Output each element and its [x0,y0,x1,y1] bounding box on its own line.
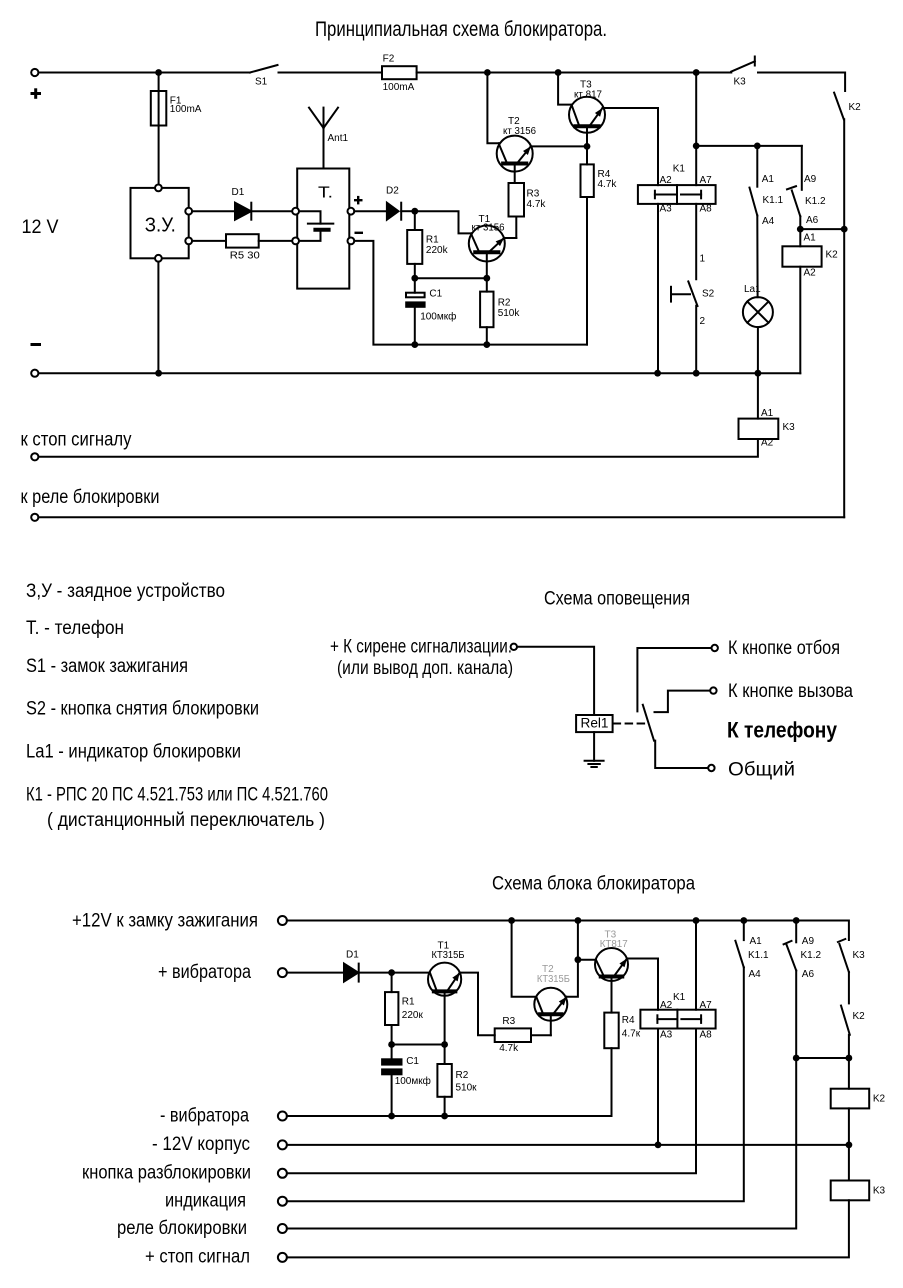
node: K1.2 tap b [793,917,800,924]
contact K1.2 (bottom) [795,921,797,943]
wire: top rail S1 to F2 [279,72,383,74]
svg-text:220к: 220к [402,1010,424,1021]
svg-text:Принципиальная схема блокирато: Принципиальная схема блокиратора. [315,18,607,41]
svg-text:A7: A7 [700,175,713,186]
resistor R4 4.7k (bottom) [604,1013,618,1049]
svg-text:K2: K2 [873,1094,886,1105]
svg-text:K1.2: K1.2 [805,196,826,207]
wire: K2 coil to -12V korpus and K3 coil [848,1108,850,1180]
wire: R2 bottom b [444,1097,446,1116]
terminal: + стоп сигнал [278,1253,287,1262]
wire: node to K2 branch [800,228,844,230]
wire: lamp down to minus rail [757,327,759,373]
node: D1 output [388,969,395,976]
wire: K1 A7 up to rail b [695,921,697,1010]
battery inside phone [299,211,321,223]
svg-text:K2: K2 [853,1011,866,1022]
wire: T3 base to R4 b [611,979,613,1013]
wire: R5 to phone box [259,240,293,242]
svg-text:A6: A6 [802,969,815,980]
svg-text:Ant1: Ant1 [328,133,349,144]
terminal: + вибратора [278,968,287,977]
svg-text:К1 - РПС 20 ПС 4.521.753 или: К1 - РПС 20 ПС 4.521.753 или ПС 4.521.76… [26,785,328,806]
wire: T2 emitter up to T3 node [567,921,578,997]
node: K2 coil bottom join [846,1142,853,1149]
svg-text:R1: R1 [402,997,415,1008]
node: S2 on minus rail [693,370,700,377]
svg-text:A4: A4 [749,969,762,980]
label minus on phone [355,232,364,234]
wire: R1 to node b [391,1025,393,1045]
svg-text:кнопка разблокировки: кнопка разблокировки [82,1163,251,1184]
svg-text:реле блокировки: реле блокировки [117,1218,247,1239]
contact K1.1 (A1-A4) [756,146,758,187]
contact K2 (bottom) [841,1006,850,1035]
wire: K2 branch down to rele blokirovki line [843,229,845,517]
wire: node to T3 collector [578,959,596,961]
wire: K1 A8 down to knopka line [287,1029,696,1174]
node: D2 output [411,208,418,215]
svg-text:индикация: индикация [165,1191,246,1212]
node: T3 collector join [575,956,582,963]
svg-text:Схема оповещения: Схема оповещения [544,589,690,610]
svg-text:(или вывод доп. канала): (или вывод доп. канала) [337,658,513,679]
wire: D1 to node [359,972,392,974]
svg-text:K2: K2 [849,102,862,113]
wire: R2 bottom [486,327,488,344]
label plus on phone [354,199,363,201]
svg-text:A1: A1 [762,174,775,185]
svg-text:A3: A3 [660,204,673,215]
wire: K3 coil down to stop signal line [287,1200,849,1257]
relay K1 box (bottom) [640,1010,715,1029]
block ZU (charger) box [131,188,189,258]
svg-text:K3: K3 [734,77,747,88]
node: C1 bottom b [388,1113,395,1120]
wire: T3 base to node [586,128,588,146]
terminal k rele blokirovki [31,514,38,521]
pin: ZU bottom [155,255,162,262]
wire: R3 bottom to T1 emitter [504,237,516,239]
resistor R3 4.7k (bottom) [495,1028,531,1042]
wire: T2 base to R3 top [514,166,516,184]
svg-text:к реле блокировки: к реле блокировки [21,487,160,508]
dashed link Rel1 to switch [614,723,645,725]
svg-text:100мкф: 100мкф [395,1075,431,1087]
svg-text:4.7k: 4.7k [527,199,547,210]
wire: + vibratora to D1 [287,972,344,974]
resistor R1 220k [414,211,416,230]
svg-text:S2 - кнопка снятия блокировки: S2 - кнопка снятия блокировки [26,699,259,720]
svg-text:A2: A2 [660,175,673,186]
svg-text:K1: K1 [673,164,686,175]
transistor T1 KT315B (bottom) [428,963,461,996]
wire: K1 branch from top rail down to A7 [695,73,697,186]
svg-text:К кнопке вызова: К кнопке вызова [728,681,853,702]
svg-text:K3: K3 [783,422,796,433]
wire: R4 bottom to -vibratora line [611,1048,613,1116]
transistor T3 KT817 (bottom, grey label) [595,948,628,981]
node: T2 emitter / T3 base / R4 [584,143,591,150]
wire: phone plus to D2 [354,210,387,212]
svg-text:F2: F2 [383,54,395,65]
wire: node to T1 collector (stepped) [415,211,472,233]
switch S1 [250,65,278,73]
wire: ZU bottom to minus rail [157,262,159,374]
svg-text:S2: S2 [702,289,715,300]
svg-text:100mA: 100mA [383,82,415,93]
node: R2 on -vibratora [441,1113,448,1120]
ground [585,760,604,762]
wire: T1 emitter to R3 [460,973,495,1036]
wire: T1 base down b [444,993,446,1044]
svg-text:4.7k: 4.7k [499,1043,519,1054]
wire: K1 A3 down to -12V korpus [657,1029,659,1145]
svg-text:A9: A9 [804,174,817,185]
resistor R2 510k (bottom) [444,1045,446,1065]
wire: T3 emitter to K1 A2 column b [627,959,658,1010]
diode D2 [387,203,399,220]
terminal plus (12V+) [31,69,38,76]
svg-text:C1: C1 [406,1056,419,1067]
svg-text:D2: D2 [386,185,399,196]
svg-text:D1: D1 [346,950,359,961]
wire: K2 contact to coil [848,1035,850,1089]
svg-text:+ К сирене сигнализации.: + К сирене сигнализации. [330,637,512,658]
svg-text:La1: La1 [744,284,761,295]
terminal k stop signalu [31,453,38,460]
wire: ZU lower to R5 [192,240,226,242]
svg-text:К телефону: К телефону [727,718,838,743]
svg-text:A1: A1 [761,408,774,419]
wire: K1.2 down through node to rele line [287,971,796,1229]
node: T1 base/R2 b [441,1041,448,1048]
transistor T2 KT315B (bottom, grey label) [534,988,567,1021]
svg-text:Схема блока блокиратора: Схема блока блокиратора [492,874,695,895]
contact K1.1 (bottom) [743,921,745,941]
wire: -12V korpus line [287,1144,849,1146]
relay coil K2 [799,229,801,246]
svg-text:( дистанционный переключатель: ( дистанционный переключатель ) [47,810,325,831]
wire: top rail F2 to K3 contact [417,72,732,74]
svg-text:100mA: 100mA [170,104,202,115]
plus sign label [31,92,42,95]
node: T3 collector tap [555,69,562,76]
fuse F2 100mA [382,66,417,79]
wire: vyzova contact [655,691,711,713]
fuse F1 100mA [158,73,160,188]
node: K1 branch tap [693,69,700,76]
terminal K knopke otboya [712,645,718,651]
minus sign label [31,343,42,346]
node: K2 coil top join [797,226,804,233]
wire: branch to A1 and A9 contacts [696,145,802,147]
terminal Obshchiy [708,765,714,771]
wire: D2 to node [401,210,415,212]
terminal: - 12V корпус [278,1140,287,1149]
svg-text:510k: 510k [498,308,521,319]
svg-text:C1: C1 [429,289,442,300]
capacitor C1 100mkf [414,278,416,293]
wire: K1 A3 down to minus rail [657,204,659,373]
terminal: кнопка разблокировки [278,1169,287,1178]
pin: phone left lower [292,238,299,245]
wire: T3 collector to top rail [558,73,571,105]
terminal: +12V к замку зажигания [278,916,287,925]
svg-text:2: 2 [700,316,706,327]
wire: K1.2 down to K2 coil node [799,216,801,229]
node: K2 coil column join [846,1055,853,1062]
node: T2 collector tap [484,69,491,76]
block T (phone) box [297,169,349,289]
node: R2 bottom [483,341,490,348]
svg-text:12 V: 12 V [22,217,59,238]
terminal: индикация [278,1197,287,1206]
wire: K3 coil to stop-signal terminal [38,439,758,457]
svg-text:K1.2: K1.2 [801,950,822,961]
lamp La1 [743,297,773,327]
wire: top rail from + terminal to S1 [39,72,250,74]
wire: T2 collector to rail b [512,921,537,997]
svg-text:к стоп сигналу: к стоп сигналу [21,430,132,451]
pin: phone left upper [292,208,299,215]
node: A3 on -12V korpus [655,1142,662,1149]
svg-text:R4: R4 [622,1015,635,1026]
pin: phone right plus [348,208,355,215]
wire: minus rail [39,372,801,374]
svg-text:A8: A8 [700,1030,713,1041]
relay coil K2 (bottom) [831,1089,870,1109]
node: K1.1 tap b [740,917,747,924]
pin: phone right minus [348,238,355,245]
node: T1 base join [483,275,490,282]
svg-text:S1 - замок зажигания: S1 - замок зажигания [26,656,188,677]
wire: blade to obshchiy terminal [655,741,708,768]
transistor T2 kt3156 [497,136,533,172]
svg-text:З,У - заядное устройство: З,У - заядное устройство [26,581,225,602]
svg-text:K3: K3 [853,950,866,961]
svg-text:кт 3156: кт 3156 [472,223,505,234]
relay coil K3 (bottom) [831,1181,870,1201]
wire: R4 bottom to local ground line [586,197,588,345]
resistor R2 510k [480,292,493,328]
svg-text:+ вибратора: + вибратора [158,962,251,983]
wire: +12V rail (bottom schematic) [287,921,849,941]
wire: node to T1 base b [392,1044,445,1046]
node: ZU on minus rail [155,370,162,377]
svg-text:A7: A7 [700,1000,713,1011]
svg-text:R5 30: R5 30 [230,251,260,262]
resistor R5 30 [226,234,259,247]
svg-text:A9: A9 [802,936,815,947]
node: K1 A7 tap b [693,917,700,924]
svg-text:+ стоп сигнал: + стоп сигнал [145,1247,250,1268]
wire: R3 to T2 base b [531,1034,551,1036]
svg-text:510к: 510к [456,1083,478,1094]
wire: phone minus to local ground line [354,241,587,345]
terminal: - вибратора [278,1112,287,1121]
node: A1 contact tap [754,143,761,150]
svg-text:R2: R2 [456,1070,469,1081]
resistor R3 4.7k [515,217,517,239]
pin: ZU right upper [185,208,192,215]
svg-text:La1 - индикатор блокировки: La1 - индикатор блокировки [26,742,241,763]
contact K1.2 (A9-A6) [801,146,803,190]
pushbutton S2 [670,287,672,302]
svg-text:K1.1: K1.1 [763,195,784,206]
wire: T1 base down to R2 [486,254,488,291]
transistor T3 kt817 [569,97,605,133]
node: C1 bottom [411,341,418,348]
wire: Rel1 to ground [593,732,595,761]
node: T3 tap b [575,917,582,924]
svg-text:K3: K3 [873,1186,886,1197]
svg-text:A3: A3 [660,1030,673,1041]
svg-text:КТ315Б: КТ315Б [432,950,465,961]
svg-text:- вибратора: - вибратора [160,1106,249,1127]
wire: T2 collector to top rail [487,73,498,144]
wire: top rail K3 to right corner, down to K2 contact [758,73,845,92]
wire: K1.1 down to lamp [756,216,758,298]
node: A3 on minus rail [654,370,661,377]
svg-text:З.У.: З.У. [145,215,176,237]
wire: K2 coil down to minus rail end [799,267,801,374]
svg-text:K1.1: K1.1 [748,950,769,961]
wire: -vibratora line [287,1115,612,1117]
svg-text:кт 3156: кт 3156 [503,126,536,137]
svg-text:A8: A8 [700,204,713,215]
svg-text:D1: D1 [232,187,245,198]
svg-text:КТ315Б: КТ315Б [537,974,570,985]
svg-text:кт 817: кт 817 [574,90,602,101]
node: T2 collector tap b [508,917,515,924]
svg-text:R3: R3 [502,1016,515,1027]
wire: link A6 node to K3/K2 column [796,1057,849,1059]
switch blade (Rel1) [643,705,654,741]
wire: K1.1 down to indikacia line [287,967,744,1201]
wire: R1 bottom to node [414,264,416,278]
relay Rel1 box [576,715,613,732]
antenna Ant1 [323,108,325,169]
wire: node to T1 collector b [392,972,430,974]
wire: switch common to otboya terminal [637,648,711,711]
svg-text:220k: 220k [426,245,449,256]
svg-text:A1: A1 [750,936,763,947]
wire: siren to Rel1 [517,647,594,715]
terminal K knopke vyzova [710,687,716,693]
svg-text:+12V к замку зажигания: +12V к замку зажигания [72,911,258,932]
diode D1 [235,203,251,220]
wire: rele blokirovki line [38,516,844,518]
wire: K2 contact down to node [843,119,845,229]
svg-text:К кнопке отбоя: К кнопке отбоя [728,638,840,659]
relay coil K3 (to stop signal) [757,373,759,418]
pin: ZU top [155,185,162,192]
resistor R4 4.7k [586,146,588,164]
svg-text:1: 1 [700,254,706,265]
svg-text:4.7к: 4.7к [622,1029,641,1040]
pin: ZU right lower [185,238,192,245]
svg-text:A6: A6 [806,215,819,226]
wire: ZU to D1 [192,210,235,212]
svg-text:A1: A1 [804,233,817,244]
wire: node to T1 base column [415,277,487,279]
svg-text:Rel1: Rel1 [581,715,609,731]
svg-text:A4: A4 [762,216,775,227]
wire: T2 emitter to R4 node [531,145,587,147]
node: A6 to K2 coil link [793,1055,800,1062]
svg-text:Т.: Т. [318,185,333,202]
contact K3 (bottom) [838,939,845,942]
capacitor C1 100mkf (bottom) [391,1045,393,1059]
diode D1 (bottom) [344,964,358,982]
resistor R1 220k (bottom) [391,973,393,993]
svg-text:- 12V корпус: - 12V корпус [152,1134,250,1155]
svg-text:Т. - телефон: Т. - телефон [26,618,124,639]
svg-text:100мкф: 100мкф [420,311,456,323]
svg-text:A2: A2 [804,268,817,279]
wire: K1 A8 down to S2 [695,204,697,279]
svg-text:K1: K1 [673,992,686,1003]
transistor T1 kt3156 [469,226,505,262]
node: F1 tap on top rail [155,69,162,76]
svg-text:4.7k: 4.7k [598,179,618,190]
wire: S2 down to minus rail [695,306,697,373]
svg-text:K2: K2 [826,250,839,261]
terminal siren [511,644,517,650]
relay K1 (RPS-20) box [638,185,716,204]
terminal minus (12V-) [31,370,38,377]
contact K3 (in top rail) [731,61,755,71]
node: lamp branch split [693,143,700,150]
wire: D1 to phone box [251,210,292,212]
svg-text:КТ817: КТ817 [600,939,628,950]
terminal: реле блокировки [278,1224,287,1233]
svg-text:Общий: Общий [728,760,795,781]
node: K2 branch join [841,226,848,233]
node: lamp on minus rail [755,370,762,377]
wire: K3 to K2 contact [848,972,850,1003]
node: R1/C1 b [388,1041,395,1048]
node: R1/C1/T1-base [411,275,418,282]
svg-text:S1: S1 [255,77,268,88]
wire: T3 emitter to K1 A2 column [603,108,659,185]
svg-text:A2: A2 [761,438,774,449]
svg-text:A2: A2 [660,1000,673,1011]
contact K2 (right side) [834,93,844,120]
